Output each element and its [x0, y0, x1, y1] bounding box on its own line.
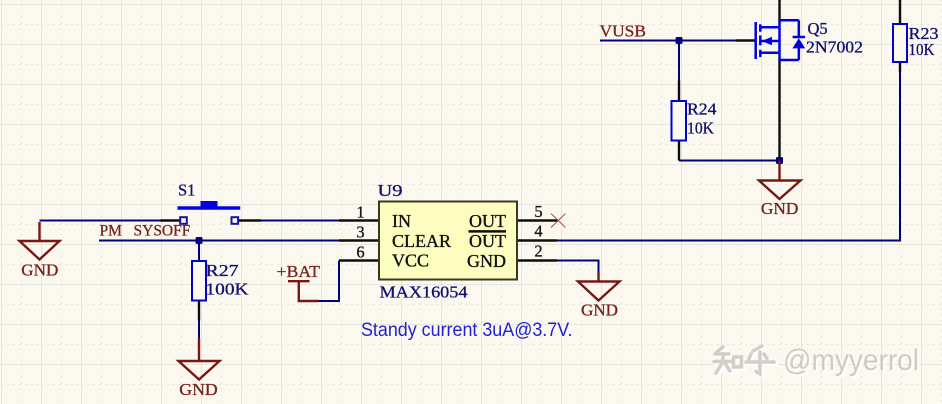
- svg-text:1: 1: [356, 203, 364, 222]
- svg-text:2N7002: 2N7002: [806, 38, 863, 57]
- svg-text:GND: GND: [761, 199, 799, 218]
- svg-text:IN: IN: [392, 211, 411, 231]
- svg-text:S1: S1: [178, 181, 195, 200]
- svg-text:5: 5: [534, 202, 542, 221]
- svg-text:R24: R24: [687, 100, 717, 119]
- svg-text:CLEAR: CLEAR: [392, 231, 451, 251]
- svg-text:100K: 100K: [206, 280, 249, 299]
- svg-text:6: 6: [356, 243, 364, 262]
- svg-text:GND: GND: [179, 380, 218, 399]
- svg-text:U9: U9: [378, 181, 403, 200]
- svg-text:VCC: VCC: [392, 251, 429, 271]
- svg-text:MAX16054: MAX16054: [380, 283, 468, 302]
- svg-text:10K: 10K: [909, 40, 935, 59]
- svg-text:4: 4: [534, 222, 542, 241]
- svg-text:+BAT: +BAT: [277, 262, 321, 281]
- svg-text:2: 2: [534, 242, 542, 261]
- svg-text:Q5: Q5: [808, 19, 828, 38]
- svg-text:Standy current 3uA@3.7V.: Standy current 3uA@3.7V.: [361, 320, 573, 341]
- svg-text:GND: GND: [467, 251, 506, 271]
- svg-text:VUSB: VUSB: [600, 22, 647, 41]
- svg-text:GND: GND: [21, 261, 58, 280]
- svg-text:@myyerrol: @myyerrol: [783, 344, 919, 377]
- svg-text:R27: R27: [206, 261, 239, 280]
- svg-text:OUT: OUT: [469, 231, 506, 251]
- svg-text:PM: PM: [100, 223, 123, 240]
- svg-text:OUT: OUT: [469, 211, 506, 231]
- svg-text:10K: 10K: [687, 119, 714, 138]
- svg-text:GND: GND: [581, 301, 618, 320]
- svg-text:3: 3: [356, 223, 364, 242]
- svg-text:SYSOFF: SYSOFF: [134, 223, 191, 240]
